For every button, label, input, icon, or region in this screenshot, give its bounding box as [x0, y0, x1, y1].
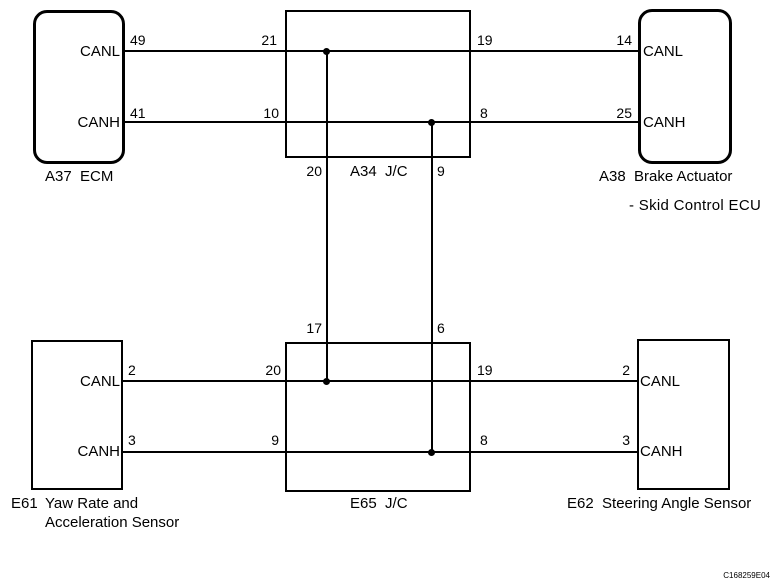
junction connector E65 J/C (box)	[285, 342, 471, 492]
wire vertical A34 pin9 to E65 pin6	[431, 122, 433, 453]
label A38 Brake Actuator	[599, 169, 732, 184]
label - Skid Control ECU	[629, 198, 761, 213]
net label CANL (A37)	[60, 44, 120, 59]
pin 2 (E61 CANL)	[128, 363, 136, 377]
pin 9 (A34 bottom right)	[437, 164, 445, 178]
wire CANL E61 pin2 to E62 pin2 (through E65 20-19)	[123, 380, 638, 382]
pin 25 (A38 CANH)	[582, 106, 632, 120]
junction dot on CANH at E65	[428, 449, 435, 456]
pin 21 (A34 left top)	[227, 33, 277, 47]
wire CANH A37 pin41 to A38 pin25 (through A34 10-8)	[125, 121, 639, 123]
pin 17 (E65 top left)	[272, 321, 322, 335]
label A34 J/C	[350, 164, 408, 179]
connector E62 Steering Angle Sensor (box)	[637, 339, 730, 490]
net label CANL (E61)	[60, 374, 120, 389]
label E65 J/C	[350, 496, 408, 511]
net label CANL (A38)	[643, 44, 683, 59]
label A37 ECM	[45, 169, 113, 184]
pin 19 (A34 right top)	[477, 33, 493, 47]
pin 2 (E62 CANL)	[580, 363, 630, 377]
junction dot on CANL at E65	[323, 378, 330, 385]
wire vertical A34 pin20 to E65 pin17	[326, 51, 328, 381]
junction dot on CANL at A34	[323, 48, 330, 55]
junction connector A34 J/C (box)	[285, 10, 471, 158]
pin 8 (E65 right bottom)	[480, 433, 488, 447]
pin 3 (E61 CANH)	[128, 433, 136, 447]
pin 20 (A34 bottom left)	[272, 164, 322, 178]
net label CANH (E61)	[60, 444, 120, 459]
pin 20 (E65 left top)	[231, 363, 281, 377]
wire CANH E61 pin3 to E62 pin3 (through E65 9-8)	[123, 451, 638, 453]
pin 3 (E62 CANH)	[580, 433, 630, 447]
net label CANH (A38)	[643, 115, 686, 130]
net label CANL (E62)	[640, 374, 680, 389]
wire CANL A37 pin49 to A38 pin14 (through A34 21-19)	[125, 50, 639, 52]
figure code C168259E04	[670, 572, 770, 580]
connector A38 Brake Actuator (rounded box)	[638, 9, 732, 164]
junction dot on CANH at A34	[428, 119, 435, 126]
pin 41 (A37 CANH)	[130, 106, 146, 120]
pin 10 (A34 left bottom)	[229, 106, 279, 120]
net label CANH (A37)	[60, 115, 120, 130]
pin 6 (E65 top right)	[437, 321, 445, 335]
label E61 Yaw Rate and Acceleration Sensor	[11, 496, 38, 511]
pin 8 (A34 right bottom)	[480, 106, 488, 120]
label E62 Steering Angle Sensor	[567, 496, 751, 511]
connector A37 ECM (rounded box)	[33, 10, 125, 164]
pin 9 (E65 left bottom)	[229, 433, 279, 447]
pin 14 (A38 CANL)	[582, 33, 632, 47]
pin 49 (A37 CANL)	[130, 33, 146, 47]
connector E61 Yaw Rate and Acceleration Sensor (box)	[31, 340, 123, 490]
pin 19 (E65 right top)	[477, 363, 493, 377]
net label CANH (E62)	[640, 444, 683, 459]
